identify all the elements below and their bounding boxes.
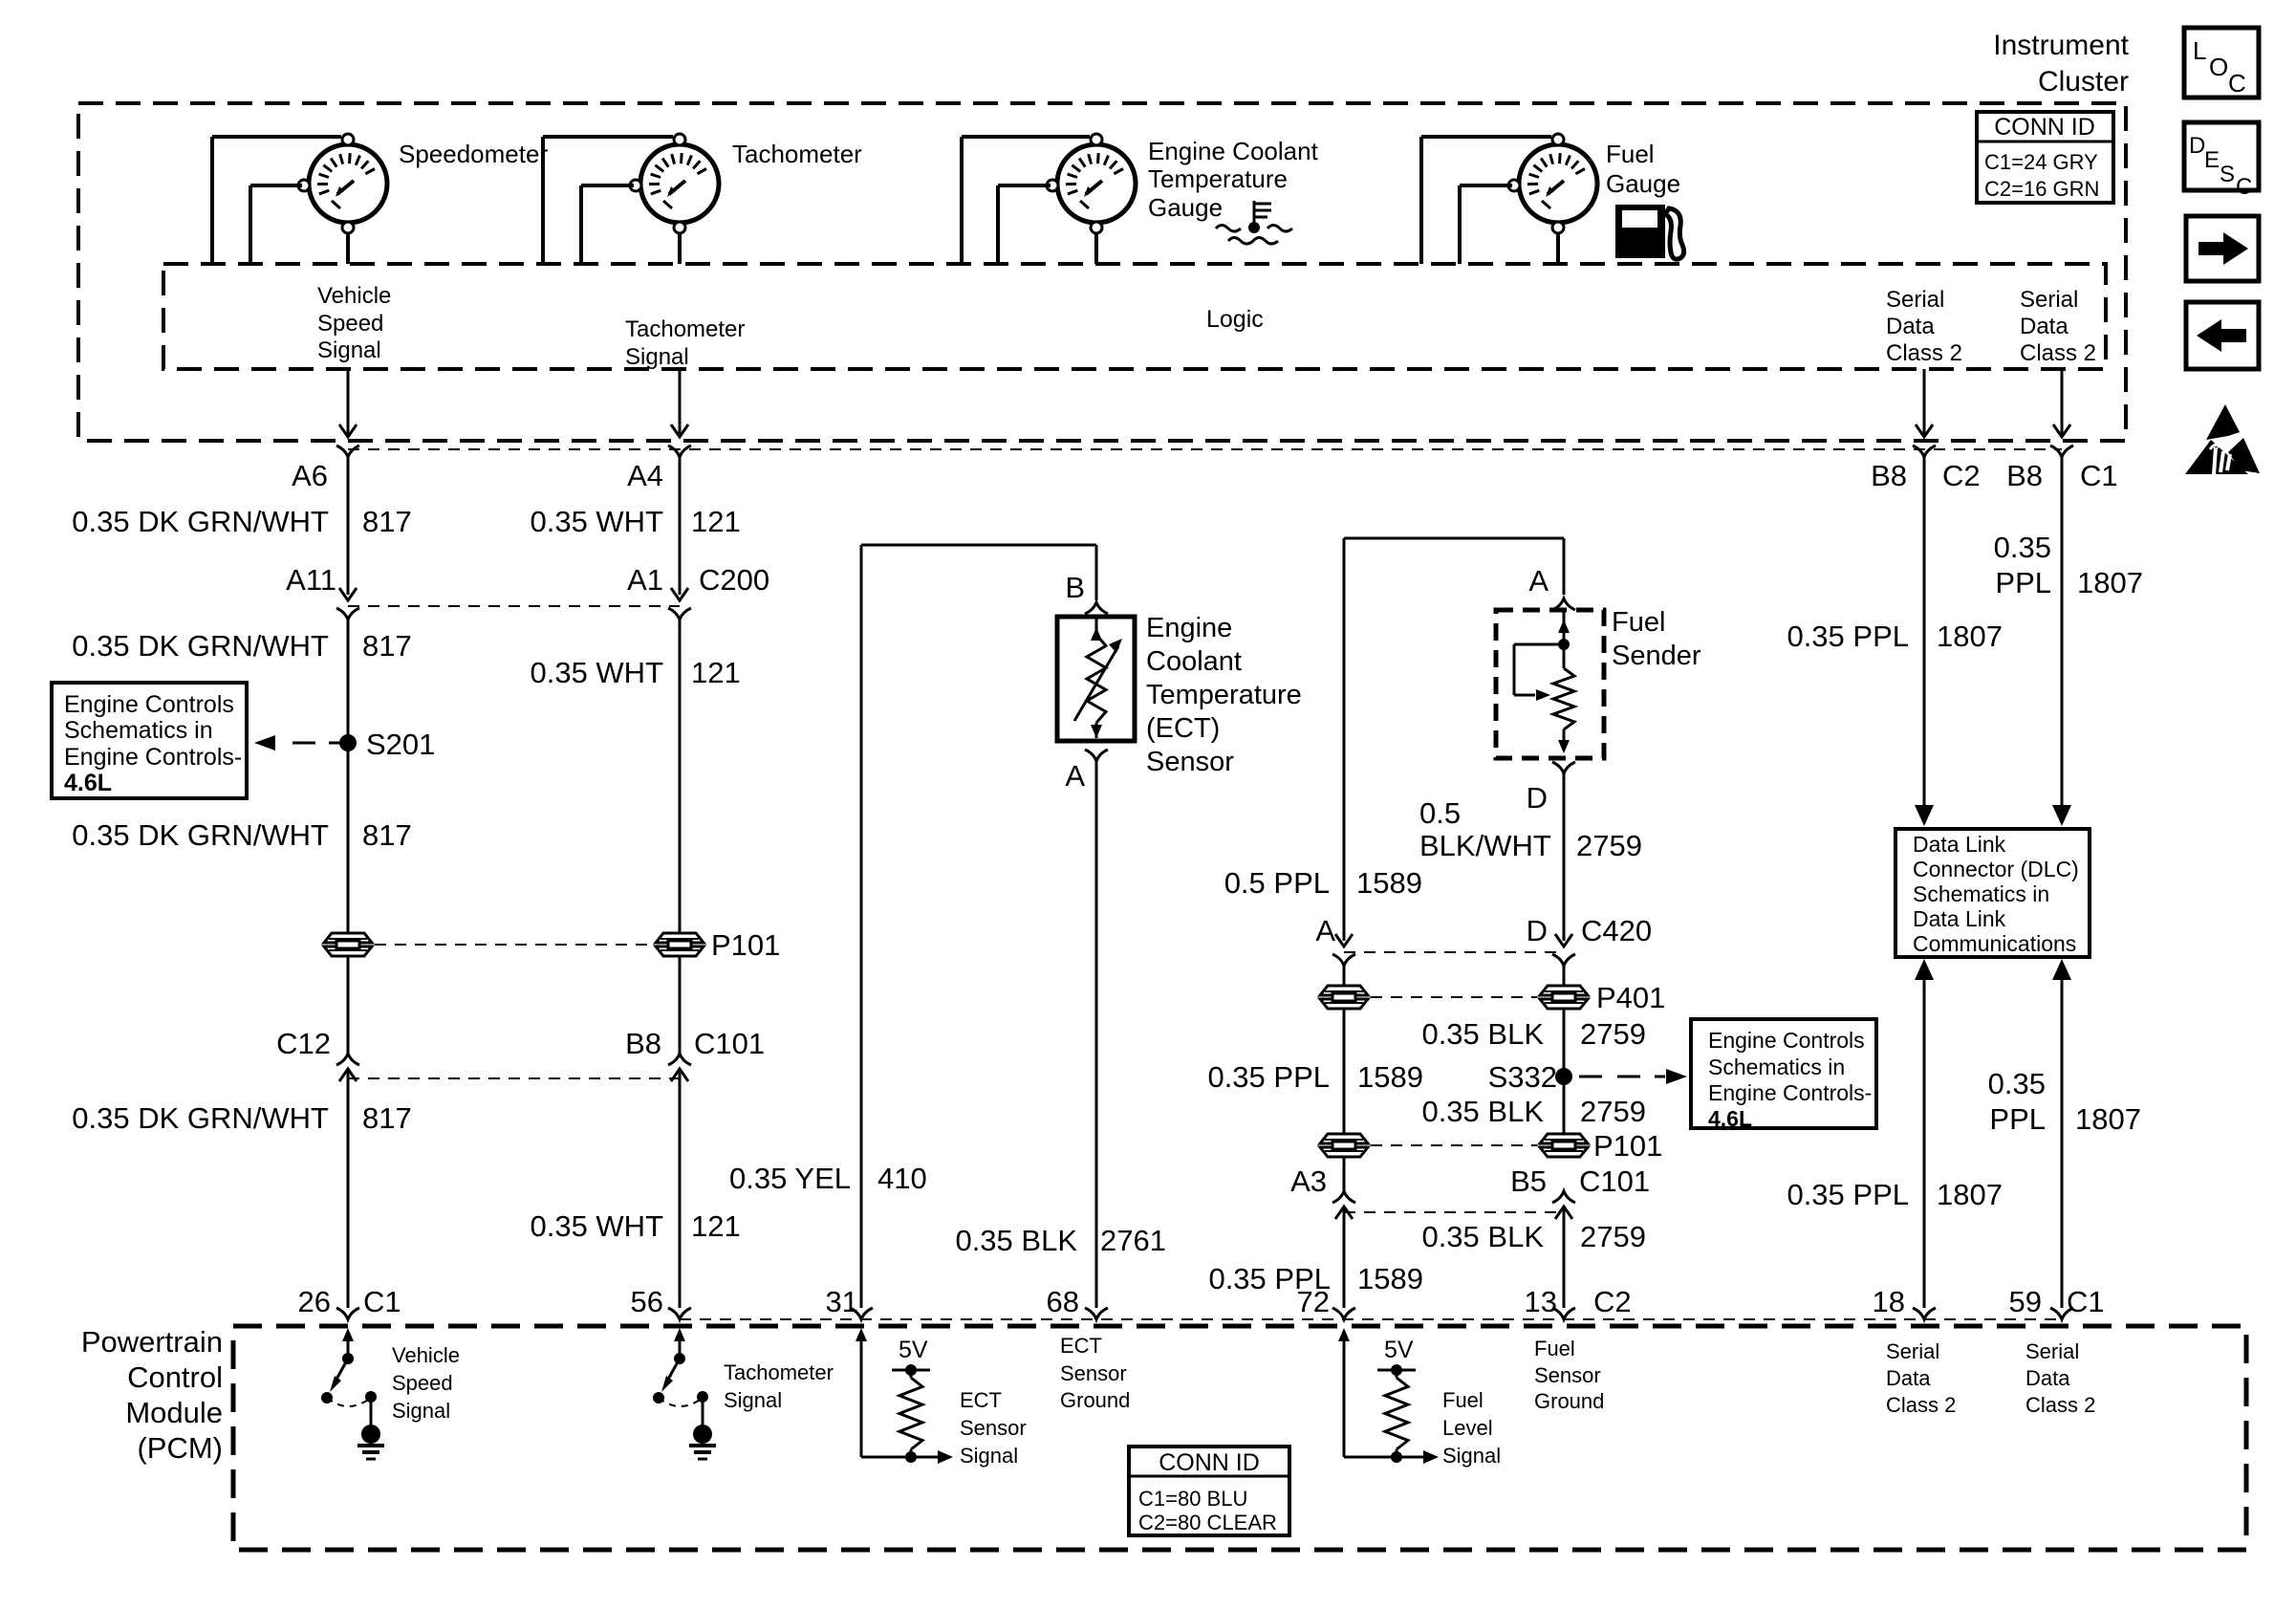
grommet P101 (fuel ground wire) bbox=[1540, 1134, 1588, 1157]
svg-text:Signal: Signal bbox=[392, 1399, 450, 1423]
svg-text:L: L bbox=[2193, 36, 2206, 65]
svg-text:Class 2: Class 2 bbox=[1886, 340, 1962, 366]
svg-text:4.6L: 4.6L bbox=[64, 770, 112, 796]
svg-text:0.35 PPL: 0.35 PPL bbox=[1207, 1060, 1330, 1094]
wire label 0.35 YEL 410 bbox=[729, 1162, 927, 1195]
ECT sensor pin B connector mark bbox=[1085, 602, 1108, 614]
PCM pin 26 connector mark bbox=[336, 1308, 359, 1319]
wire label 0.35 PPL 1807 (upper left) bbox=[1787, 620, 2003, 653]
wire label 0.35 PPL 1807 (lower right) bbox=[1988, 1067, 2141, 1136]
connector C101 mark B8 upper bbox=[668, 1054, 691, 1065]
svg-text:Coolant: Coolant bbox=[1146, 646, 1242, 677]
tachometer gauge bbox=[630, 134, 719, 233]
connector mark A11 lower bbox=[336, 608, 359, 620]
connector C101 arrow B8 bbox=[671, 1069, 688, 1081]
wire ECT gauge bottom terminal to logic bbox=[1094, 234, 1098, 264]
wire label 0.35 PPL 1807 (lower left) bbox=[1787, 1178, 2003, 1211]
svg-text:S201: S201 bbox=[366, 728, 435, 761]
logic block (dashed box) inside cluster bbox=[163, 264, 2106, 369]
svg-text:Control: Control bbox=[127, 1360, 223, 1394]
pin label C12 bbox=[276, 1027, 331, 1060]
connector C420 labels bbox=[1315, 914, 1652, 947]
pin label C1 (PCM, serial) bbox=[2067, 1285, 2105, 1318]
svg-text:C1=24 GRY: C1=24 GRY bbox=[1984, 150, 2098, 174]
wire 1589 segment C420 to P401 bbox=[1343, 966, 1346, 987]
svg-text:Level: Level bbox=[1442, 1416, 1493, 1440]
fuel sender label bbox=[1612, 607, 1701, 671]
pin label B8 bbox=[625, 1027, 661, 1060]
wire ECT gauge top terminal to logic bbox=[962, 137, 1090, 264]
svg-text:0.35 WHT: 0.35 WHT bbox=[530, 1209, 663, 1243]
pin label 31 bbox=[826, 1285, 858, 1318]
svg-text:817: 817 bbox=[362, 629, 412, 663]
svg-text:1807: 1807 bbox=[1937, 1178, 2003, 1211]
svg-text:ECT: ECT bbox=[960, 1388, 1002, 1412]
svg-text:Serial: Serial bbox=[1886, 287, 1944, 313]
wire label 0.35 BLK 2761 bbox=[955, 1224, 1166, 1257]
wire label 0.35 BLK 2759 (3) bbox=[1421, 1220, 1646, 1253]
PCM serial data class 2 label (pin 59) bbox=[2025, 1339, 2095, 1417]
wire fuel gauge bottom terminal to logic bbox=[1556, 234, 1560, 264]
wire 1807 segment DLC to PCM pin 59 bbox=[2052, 959, 2071, 1308]
pin label 18 bbox=[1873, 1285, 1905, 1318]
svg-text:A4: A4 bbox=[627, 459, 663, 492]
data link connector reference box bbox=[1895, 829, 2090, 957]
pin label A3 bbox=[1290, 1164, 1327, 1198]
tachometer signal label (logic) bbox=[625, 316, 745, 370]
wire label 0.35 PPL 1807 (upper right) bbox=[1994, 531, 2143, 599]
wire tachometer left terminal to logic bbox=[581, 185, 634, 264]
svg-text:Sensor: Sensor bbox=[1146, 747, 1234, 777]
wire speedometer bottom terminal to logic bbox=[346, 234, 350, 264]
connector C420 dashed line bbox=[1344, 951, 1564, 953]
wire 1807 segment DLC to PCM pin 18 bbox=[1915, 959, 1934, 1308]
grommet P401 (fuel ground wire) bbox=[1540, 986, 1588, 1009]
wire speedometer top terminal to logic bbox=[212, 137, 341, 264]
ECT gauge label bbox=[1148, 137, 1319, 222]
wire tachometer from logic to cluster connector bbox=[671, 369, 688, 437]
svg-text:C: C bbox=[2236, 174, 2252, 200]
svg-text:56: 56 bbox=[631, 1285, 663, 1318]
svg-text:121: 121 bbox=[691, 1209, 741, 1243]
svg-text:Communications: Communications bbox=[1913, 931, 2076, 956]
svg-text:(PCM): (PCM) bbox=[137, 1431, 223, 1465]
svg-text:B5: B5 bbox=[1510, 1164, 1547, 1198]
engine controls reference box (left) bbox=[52, 683, 247, 798]
svg-text:Sensor: Sensor bbox=[1060, 1361, 1127, 1385]
grommet P101 label bbox=[711, 928, 780, 962]
svg-text:0.35 DK GRN/WHT: 0.35 DK GRN/WHT bbox=[72, 505, 329, 538]
svg-text:Vehicle: Vehicle bbox=[392, 1343, 460, 1367]
svg-text:C2: C2 bbox=[1593, 1285, 1632, 1318]
svg-text:E: E bbox=[2204, 147, 2220, 173]
svg-text:0.5 PPL: 0.5 PPL bbox=[1224, 866, 1330, 900]
splice S201 junction dot bbox=[339, 734, 357, 751]
wire 2759 fuel sender to C420 bbox=[1563, 773, 1566, 941]
svg-text:B8: B8 bbox=[1871, 459, 1907, 492]
pin label A4 bbox=[627, 459, 663, 492]
connector C101 dashed line bbox=[348, 1077, 680, 1079]
engine coolant temperature (ECT) sensor box bbox=[1057, 617, 1135, 741]
LOC hyperlink icon bbox=[2184, 28, 2259, 98]
wire 121 segment A4 to A1 bbox=[679, 455, 682, 595]
wire 1589 segment A3 to PCM pin 72 bbox=[1343, 1212, 1346, 1308]
dashed reference arrow S332 to engine controls box bbox=[1579, 1069, 1687, 1084]
svg-text:C420: C420 bbox=[1581, 914, 1652, 947]
pin label C2 bbox=[1942, 459, 1981, 492]
pin label A6 bbox=[292, 459, 328, 492]
grommet P101 dashed link (lower) bbox=[1371, 1144, 1537, 1146]
svg-text:0.35 DK GRN/WHT: 0.35 DK GRN/WHT bbox=[72, 818, 329, 852]
svg-text:Vehicle: Vehicle bbox=[317, 283, 391, 309]
svg-text:Speed: Speed bbox=[317, 311, 383, 337]
splice S332 label bbox=[1488, 1060, 1557, 1094]
svg-text:Fuel: Fuel bbox=[1612, 607, 1665, 638]
fuel sender pin A label bbox=[1528, 564, 1549, 598]
svg-text:Data: Data bbox=[1886, 1366, 1931, 1390]
wire ECT gauge left terminal to logic bbox=[998, 185, 1051, 264]
svg-text:Signal: Signal bbox=[724, 1388, 782, 1412]
svg-text:Engine Controls: Engine Controls bbox=[64, 691, 234, 718]
svg-text:A: A bbox=[1528, 564, 1549, 598]
fuel sender internal rheostat bbox=[1514, 610, 1574, 753]
svg-text:Class 2: Class 2 bbox=[2025, 1393, 2095, 1417]
svg-text:Speedometer: Speedometer bbox=[399, 140, 548, 168]
pin label 72 bbox=[1297, 1285, 1330, 1318]
svg-text:1589: 1589 bbox=[1357, 1060, 1423, 1094]
fuel sender dashed box bbox=[1496, 610, 1604, 758]
wire fuel gauge left terminal to logic bbox=[1460, 185, 1512, 264]
connector mark A1 lower bbox=[668, 608, 691, 620]
speedometer label bbox=[399, 140, 548, 168]
wire 817 segment C12 to PCM pin 26 bbox=[347, 1078, 350, 1308]
wire label 0.35 BLK 2759 (1) bbox=[1421, 1017, 1646, 1051]
svg-text:817: 817 bbox=[362, 505, 412, 538]
wire 1589 bracket (fuel signal loop top) bbox=[1344, 538, 1564, 941]
pin label C1 bbox=[2080, 459, 2118, 492]
svg-text:Signal: Signal bbox=[1442, 1444, 1501, 1468]
pin label 13 bbox=[1525, 1285, 1557, 1318]
svg-text:O: O bbox=[2209, 53, 2228, 81]
svg-text:Data: Data bbox=[2020, 314, 2069, 339]
pin label A11 bbox=[286, 563, 336, 597]
svg-text:Signal: Signal bbox=[960, 1444, 1018, 1468]
pin label 26 bbox=[298, 1285, 331, 1318]
svg-text:B: B bbox=[1065, 571, 1085, 604]
svg-text:0.35 BLK: 0.35 BLK bbox=[1421, 1220, 1544, 1253]
connector C101 dashed line (lower) bbox=[1344, 1211, 1564, 1213]
wire label 0.5 PPL 1589 bbox=[1224, 866, 1422, 900]
PCM serial data class 2 label (pin 18) bbox=[1886, 1339, 1956, 1417]
wire 410 vertical to ECT sensor pin B bbox=[1095, 545, 1098, 600]
connector C200 dashed line bbox=[348, 605, 680, 607]
svg-text:(ECT): (ECT) bbox=[1146, 713, 1220, 744]
svg-text:A3: A3 bbox=[1290, 1164, 1327, 1198]
pin label A1 bbox=[627, 563, 663, 597]
wire label 0.35 DK GRN/WHT 817 (2) bbox=[72, 629, 411, 663]
svg-text:Connector (DLC): Connector (DLC) bbox=[1913, 857, 2079, 881]
svg-text:Serial: Serial bbox=[1886, 1339, 1939, 1363]
wire label 0.35 BLK 2759 (2) bbox=[1421, 1095, 1646, 1128]
svg-text:Ground: Ground bbox=[1534, 1389, 1604, 1413]
svg-text:S332: S332 bbox=[1488, 1060, 1557, 1094]
powertrain control module (dashed box) bbox=[233, 1326, 2246, 1550]
PCM tachometer signal driver (switch to ground) bbox=[653, 1328, 834, 1459]
svg-text:A6: A6 bbox=[292, 459, 328, 492]
wire 1807 segment cluster to DLC (C1 side) bbox=[2052, 455, 2071, 826]
splice S201 label bbox=[366, 728, 435, 761]
wire label 0.5 BLK/WHT 2759 bbox=[1419, 796, 1642, 862]
svg-text:Data: Data bbox=[1886, 314, 1935, 339]
forward navigation icon (right arrow) bbox=[2186, 216, 2259, 281]
wire speedometer left terminal to logic bbox=[250, 185, 302, 264]
wire 817 segment P101 to C12 bbox=[347, 956, 350, 1056]
svg-text:2761: 2761 bbox=[1100, 1224, 1166, 1257]
svg-text:5V: 5V bbox=[1384, 1337, 1414, 1363]
svg-text:0.35 BLK: 0.35 BLK bbox=[1421, 1017, 1544, 1051]
svg-text:Tachometer: Tachometer bbox=[732, 140, 862, 168]
wire 2759 segment C420 to P401 bbox=[1563, 966, 1566, 987]
PCM pin 72 connector mark bbox=[1332, 1308, 1355, 1319]
svg-text:P401: P401 bbox=[1596, 981, 1665, 1014]
connector C420 arrows bbox=[1335, 934, 1572, 946]
connector C420 marks bbox=[1332, 954, 1575, 966]
svg-text:A: A bbox=[1065, 759, 1085, 793]
svg-text:1589: 1589 bbox=[1356, 866, 1422, 900]
svg-text:Speed: Speed bbox=[392, 1371, 453, 1395]
connector C101 mark C12 upper bbox=[336, 1054, 359, 1065]
fuel pump icon bbox=[1615, 205, 1684, 259]
svg-text:68: 68 bbox=[1047, 1285, 1079, 1318]
fuel gauge label bbox=[1606, 140, 1680, 198]
svg-text:13: 13 bbox=[1525, 1285, 1557, 1318]
svg-text:72: 72 bbox=[1297, 1285, 1330, 1318]
svg-text:Signal: Signal bbox=[317, 337, 381, 363]
pin label C1 (PCM blue conn) bbox=[363, 1285, 401, 1318]
svg-text:BLK/WHT: BLK/WHT bbox=[1419, 829, 1551, 862]
svg-text:C1=80 BLU: C1=80 BLU bbox=[1138, 1487, 1247, 1511]
svg-text:ECT: ECT bbox=[1060, 1334, 1102, 1358]
svg-text:C: C bbox=[2228, 69, 2246, 98]
grommet P101 (speedometer wire) bbox=[324, 933, 372, 956]
svg-text:D: D bbox=[1527, 914, 1548, 947]
speedometer gauge bbox=[298, 134, 387, 233]
svg-text:C1: C1 bbox=[2080, 459, 2118, 492]
grommet P401 dashed link bbox=[1371, 996, 1537, 998]
svg-text:B8: B8 bbox=[625, 1027, 661, 1060]
grommet P101 dashed link bbox=[375, 944, 652, 946]
svg-text:A: A bbox=[1315, 914, 1335, 947]
svg-text:Serial: Serial bbox=[2025, 1339, 2079, 1363]
wire 1807 segment cluster to DLC (C2 side) bbox=[1915, 455, 1934, 826]
engine controls reference box (right) bbox=[1691, 1019, 1876, 1131]
svg-text:Sensor: Sensor bbox=[960, 1416, 1027, 1440]
svg-text:2759: 2759 bbox=[1580, 1017, 1646, 1051]
svg-text:Logic: Logic bbox=[1206, 306, 1264, 333]
fuel gauge bbox=[1508, 134, 1597, 233]
PCM fuel level signal pull-up (5V) bbox=[1338, 1328, 1501, 1468]
svg-text:0.35 YEL: 0.35 YEL bbox=[729, 1162, 851, 1195]
wire serial data C2 from logic to cluster connector bbox=[1916, 369, 1933, 437]
svg-text:A11: A11 bbox=[286, 563, 336, 597]
wire 121 segment P101 to B8 bbox=[679, 956, 682, 1056]
pin label 68 bbox=[1047, 1285, 1079, 1318]
CONN ID table (cluster connectors) bbox=[1977, 112, 2113, 203]
wire serial data C1 from logic to cluster connector bbox=[2053, 369, 2070, 437]
pin label B8 (C2) bbox=[1871, 459, 1907, 492]
PCM pin 13 connector mark bbox=[1552, 1308, 1575, 1319]
svg-text:121: 121 bbox=[691, 656, 741, 689]
wire 410 bracket (ECT signal loop top) bbox=[861, 545, 1096, 1308]
ECT sensor pin A connector mark bbox=[1085, 750, 1108, 761]
coolant temperature icon (thermometer in liquid) bbox=[1216, 201, 1292, 244]
svg-text:D: D bbox=[1527, 781, 1548, 815]
wire label 0.35 WHT 121 (3) bbox=[530, 1209, 740, 1243]
svg-text:Fuel: Fuel bbox=[1534, 1337, 1575, 1360]
wire tachometer top terminal to logic bbox=[543, 137, 673, 264]
CONN ID table (PCM connectors) bbox=[1129, 1447, 1289, 1535]
svg-text:Fuel: Fuel bbox=[1606, 140, 1655, 168]
wire 817 segment A11 to P101 bbox=[347, 620, 350, 933]
svg-text:C1: C1 bbox=[363, 1285, 401, 1318]
PCM pin 31 connector mark bbox=[850, 1308, 873, 1319]
svg-text:Tachometer: Tachometer bbox=[625, 316, 745, 342]
ECT sensor label bbox=[1146, 613, 1302, 777]
svg-text:2759: 2759 bbox=[1580, 1220, 1646, 1253]
svg-text:C2=16 GRN: C2=16 GRN bbox=[1984, 177, 2099, 201]
svg-text:Schematics in: Schematics in bbox=[64, 717, 213, 744]
svg-text:5V: 5V bbox=[899, 1337, 928, 1363]
wire vehicle speed from logic to cluster connector bbox=[339, 369, 357, 437]
svg-text:CONN ID: CONN ID bbox=[1994, 114, 2095, 141]
dashed reference arrow S201 to engine controls box bbox=[254, 735, 339, 751]
connector C101 mark B5 upper bbox=[1552, 1191, 1575, 1219]
PCM fuel sensor ground label bbox=[1534, 1337, 1604, 1413]
svg-text:Tachometer: Tachometer bbox=[724, 1360, 834, 1384]
wire label 0.35 WHT 121 (1) bbox=[530, 505, 740, 538]
svg-text:CONN ID: CONN ID bbox=[1159, 1449, 1260, 1476]
connector C101 mark A3 upper bbox=[1332, 1191, 1355, 1219]
PCM vehicle speed signal driver (switch to ground) bbox=[321, 1328, 460, 1459]
wire 817 segment A6 to A11 bbox=[347, 455, 350, 595]
svg-text:Sensor: Sensor bbox=[1534, 1363, 1601, 1387]
pin label B8 (C1) bbox=[2006, 459, 2043, 492]
svg-text:PPL: PPL bbox=[1995, 566, 2051, 599]
svg-text:Gauge: Gauge bbox=[1606, 169, 1680, 198]
svg-text:Instrument: Instrument bbox=[1993, 30, 2129, 61]
PCM pin 59 connector mark bbox=[2050, 1308, 2073, 1319]
svg-text:18: 18 bbox=[1873, 1285, 1905, 1318]
svg-text:0.35 BLK: 0.35 BLK bbox=[1421, 1095, 1544, 1128]
wire 2759 segment P401 to S332 bbox=[1563, 1009, 1566, 1077]
connector C200 arrow (A1) bbox=[671, 588, 688, 600]
grommet P101 (fuel signal wire) bbox=[1320, 1134, 1368, 1157]
PCM pin 68 connector mark bbox=[1085, 1308, 1108, 1319]
svg-text:4.6L: 4.6L bbox=[1708, 1106, 1752, 1131]
svg-text:Engine: Engine bbox=[1146, 613, 1232, 643]
svg-text:Module: Module bbox=[125, 1396, 223, 1429]
svg-text:C1: C1 bbox=[2067, 1285, 2105, 1318]
svg-text:Signal: Signal bbox=[625, 344, 689, 370]
tachometer label bbox=[732, 140, 862, 168]
svg-text:0.35 DK GRN/WHT: 0.35 DK GRN/WHT bbox=[72, 1101, 329, 1135]
svg-text:59: 59 bbox=[2009, 1285, 2042, 1318]
backward navigation icon (left arrow) bbox=[2186, 302, 2259, 369]
svg-text:2759: 2759 bbox=[1576, 829, 1642, 862]
PCM pin 18 connector mark bbox=[1913, 1308, 1936, 1319]
pin label B5 bbox=[1510, 1164, 1547, 1198]
wire fuel gauge top terminal to logic bbox=[1421, 137, 1551, 264]
pin label C2 (PCM clear conn) bbox=[1593, 1285, 1632, 1318]
svg-text:C12: C12 bbox=[276, 1027, 331, 1060]
wire 1589 segment P401 to A3 bbox=[1343, 1009, 1346, 1193]
wire 2761 ECT sensor to PCM pin 68 bbox=[1095, 762, 1098, 1308]
instrument cluster label bbox=[1993, 30, 2129, 98]
connector mark pin B8 C1 bbox=[2050, 446, 2073, 457]
grommet P101 label (lower) bbox=[1593, 1129, 1662, 1163]
wire 121 segment A1 to P101 bbox=[679, 620, 682, 933]
pin label C200 bbox=[699, 563, 769, 597]
svg-text:Gauge: Gauge bbox=[1148, 193, 1223, 222]
svg-text:S: S bbox=[2220, 162, 2235, 187]
svg-text:C200: C200 bbox=[699, 563, 769, 597]
wire label 0.35 WHT 121 (2) bbox=[530, 656, 740, 689]
svg-text:Data: Data bbox=[2025, 1366, 2070, 1390]
fuel sender pin A connector mark bbox=[1552, 598, 1575, 610]
instrument cluster boundary (dashed box) bbox=[78, 103, 2126, 441]
svg-text:0.35 DK GRN/WHT: 0.35 DK GRN/WHT bbox=[72, 629, 329, 663]
ESD sensitive device icon bbox=[2185, 404, 2260, 474]
connector mark pin A4 bbox=[668, 446, 691, 457]
svg-text:0.35 WHT: 0.35 WHT bbox=[530, 656, 663, 689]
connector C200 arrow (A11) bbox=[339, 588, 357, 600]
svg-text:Class 2: Class 2 bbox=[1886, 1393, 1956, 1417]
ECT sensor internal variable resistor bbox=[1074, 617, 1122, 738]
wire 2759 segment B5 to PCM pin 13 bbox=[1563, 1212, 1566, 1308]
connector C101 arrow C12 bbox=[339, 1069, 357, 1081]
svg-text:C101: C101 bbox=[1579, 1164, 1650, 1198]
svg-text:0.35: 0.35 bbox=[1988, 1067, 2046, 1100]
pin label C101 (lower) bbox=[1579, 1164, 1650, 1198]
ECT sensor pin A label bbox=[1065, 759, 1085, 793]
svg-text:0.35: 0.35 bbox=[1994, 531, 2051, 564]
wire 2759 segment S332 to P101 bbox=[1563, 1077, 1566, 1135]
svg-text:1807: 1807 bbox=[1937, 620, 2003, 653]
PCM connector dashed line bbox=[680, 1318, 2062, 1320]
svg-text:PPL: PPL bbox=[1989, 1102, 2046, 1136]
PCM ECT sensor signal pull-up (5V) bbox=[856, 1328, 1027, 1468]
svg-text:Temperature: Temperature bbox=[1148, 164, 1288, 193]
svg-text:D: D bbox=[2189, 133, 2205, 159]
svg-text:B8: B8 bbox=[2006, 459, 2043, 492]
svg-text:Serial: Serial bbox=[2020, 287, 2078, 313]
svg-text:817: 817 bbox=[362, 1101, 412, 1135]
svg-text:Sender: Sender bbox=[1612, 641, 1701, 671]
svg-text:P101: P101 bbox=[711, 928, 780, 962]
svg-text:C101: C101 bbox=[694, 1027, 765, 1060]
cluster connector dashed line bbox=[348, 448, 2062, 450]
svg-text:Data Link: Data Link bbox=[1913, 906, 2006, 931]
svg-text:0.35 WHT: 0.35 WHT bbox=[530, 505, 663, 538]
svg-text:0.35 BLK: 0.35 BLK bbox=[955, 1224, 1077, 1257]
svg-text:0.35 PPL: 0.35 PPL bbox=[1787, 1178, 1909, 1211]
pin label C101 bbox=[694, 1027, 765, 1060]
svg-text:26: 26 bbox=[298, 1285, 331, 1318]
PCM ECT sensor ground label bbox=[1060, 1334, 1130, 1412]
svg-text:Fuel: Fuel bbox=[1442, 1388, 1484, 1412]
svg-text:Engine Controls-: Engine Controls- bbox=[64, 744, 242, 771]
svg-text:Cluster: Cluster bbox=[2038, 66, 2129, 98]
